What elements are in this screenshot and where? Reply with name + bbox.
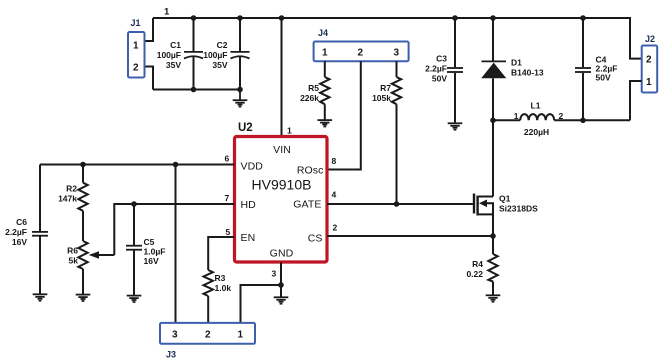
junction dot node D1/L1/Q1 drain: [490, 118, 496, 124]
svg-text:220µH: 220µH: [524, 127, 549, 137]
svg-text:2: 2: [559, 111, 564, 121]
junction dot C4 bottom: [580, 118, 586, 124]
wire CS net: [327, 235, 493, 237]
wire EN net to R3: [208, 237, 234, 270]
capacitor C2: [203, 18, 249, 90]
svg-text:R7: R7: [380, 83, 391, 93]
ground under C5: [127, 296, 142, 302]
wire bottom input rail: [153, 89, 240, 91]
ground under R4: [486, 295, 501, 301]
svg-text:R2: R2: [66, 184, 77, 194]
svg-text:50V: 50V: [596, 73, 611, 83]
svg-text:C6: C6: [16, 217, 27, 227]
svg-text:5k: 5k: [69, 256, 79, 266]
wire ROsc to J4 pin2: [327, 61, 361, 169]
wire GATE net: [327, 203, 473, 205]
svg-text:1: 1: [164, 7, 170, 18]
svg-text:B140-13: B140-13: [511, 68, 544, 78]
resistor R4: [466, 236, 497, 295]
capacitor C1: [157, 18, 203, 90]
svg-text:35V: 35V: [166, 60, 181, 70]
wire VDD net left rail: [40, 164, 235, 166]
resistor R5: [300, 61, 329, 120]
svg-text:J4: J4: [318, 28, 328, 38]
svg-text:50V: 50V: [432, 74, 447, 84]
svg-text:C1: C1: [170, 40, 181, 50]
resistor R2: [58, 165, 88, 242]
svg-text:16V: 16V: [144, 256, 159, 266]
capacitor C5: [126, 204, 165, 296]
resistor R3: [204, 270, 232, 323]
resistor R7: [372, 61, 401, 204]
svg-text:VIN: VIN: [273, 144, 291, 156]
svg-text:3: 3: [272, 269, 277, 279]
svg-text:2: 2: [205, 330, 211, 341]
svg-text:100µF: 100µF: [203, 50, 227, 60]
svg-text:2.2µF: 2.2µF: [425, 64, 447, 74]
svg-text:6: 6: [225, 154, 230, 164]
svg-text:16V: 16V: [12, 237, 27, 247]
svg-text:J3: J3: [166, 350, 176, 360]
wire J3 pin1 to GND node: [241, 285, 282, 323]
svg-text:R4: R4: [472, 259, 483, 269]
inductor L1: [493, 101, 630, 138]
connector J3: [160, 323, 255, 360]
capacitor C6: [5, 165, 48, 295]
svg-text:C5: C5: [144, 237, 155, 247]
svg-text:R6: R6: [67, 246, 78, 256]
svg-text:R5: R5: [308, 83, 319, 93]
junction C1 top: [191, 15, 197, 21]
junction dot VDD/R2: [80, 162, 86, 168]
svg-text:1: 1: [133, 41, 139, 52]
junction dot GATE/R7: [394, 201, 400, 207]
svg-text:35V: 35V: [212, 60, 227, 70]
wire J1 pin1 to top rail: [145, 18, 154, 41]
transistor Q1 MOSFET: [474, 194, 538, 237]
svg-text:VDD: VDD: [241, 161, 264, 173]
svg-text:147k: 147k: [58, 194, 77, 204]
wire HD net: [114, 204, 234, 255]
wire J1 pin2 to bottom rail: [145, 67, 154, 90]
junction C4 top: [580, 15, 586, 21]
wire top rail from J1 to J2: [153, 18, 642, 59]
svg-text:1: 1: [238, 330, 244, 341]
svg-text:Q1: Q1: [499, 194, 511, 204]
potentiometer R6: [67, 241, 114, 295]
svg-text:C2: C2: [217, 40, 228, 50]
junction C1 bottom: [191, 87, 197, 93]
junction D1 top: [490, 15, 496, 21]
svg-text:2.2µF: 2.2µF: [5, 227, 27, 237]
svg-text:100µF: 100µF: [157, 50, 181, 60]
svg-text:ROsc: ROsc: [297, 165, 324, 177]
svg-text:HV9910B: HV9910B: [252, 177, 312, 193]
junction C2 bottom: [237, 87, 243, 93]
junction dot GND node: [278, 282, 284, 288]
svg-text:4: 4: [332, 190, 337, 200]
connector J1: [128, 18, 145, 78]
svg-text:GND: GND: [270, 248, 294, 260]
svg-text:1.0k: 1.0k: [215, 283, 232, 293]
svg-text:Si2318DS: Si2318DS: [499, 204, 538, 214]
svg-text:1: 1: [514, 111, 519, 121]
svg-text:2: 2: [646, 55, 652, 66]
diode D1: [481, 18, 544, 197]
ground under C2: [233, 90, 248, 107]
junction C2 top: [237, 15, 243, 21]
svg-text:2: 2: [333, 223, 338, 233]
ground under R5: [318, 120, 333, 126]
svg-text:2: 2: [133, 63, 139, 74]
capacitor C4: [575, 18, 617, 120]
svg-text:GATE: GATE: [293, 199, 321, 211]
svg-text:L1: L1: [531, 101, 541, 111]
svg-text:8: 8: [332, 156, 337, 166]
svg-text:1: 1: [646, 77, 652, 88]
junction C3 top: [452, 15, 458, 21]
wire VDD to J3 pin3: [175, 165, 177, 323]
svg-text:CS: CS: [308, 233, 323, 245]
junction dot VDD/J3 pin3 wire: [173, 162, 179, 168]
svg-text:105k: 105k: [372, 93, 391, 103]
ground under U2 GND: [274, 297, 289, 303]
svg-text:J2: J2: [645, 34, 655, 44]
svg-text:C3: C3: [436, 54, 447, 64]
junction dot CS/R4/Q1 source: [490, 233, 496, 239]
wire VIN from top rail to U2: [281, 18, 283, 137]
junction dot HD/C5: [131, 201, 137, 207]
svg-text:HD: HD: [241, 199, 257, 211]
svg-text:D1: D1: [511, 58, 522, 68]
svg-text:3: 3: [172, 330, 178, 341]
ground under C6: [33, 294, 48, 300]
svg-text:226k: 226k: [300, 93, 319, 103]
svg-text:0.22: 0.22: [466, 269, 483, 279]
svg-text:3: 3: [394, 48, 400, 59]
svg-text:J1: J1: [131, 18, 141, 28]
svg-text:1: 1: [287, 126, 292, 136]
svg-text:5: 5: [226, 227, 231, 237]
junction VIN tap: [279, 15, 285, 21]
connector J4: [314, 28, 409, 61]
svg-text:EN: EN: [241, 232, 256, 244]
capacitor C3: [425, 18, 463, 122]
svg-text:7: 7: [225, 193, 230, 203]
ground under R6: [76, 295, 91, 301]
svg-text:U2: U2: [238, 122, 253, 134]
svg-text:2: 2: [358, 48, 364, 59]
connector J2: [642, 34, 658, 93]
IC U2 HV9910B: [235, 122, 328, 262]
ground under C3: [448, 123, 463, 129]
svg-text:1: 1: [322, 48, 328, 59]
wire U2 GND pin: [280, 262, 282, 297]
svg-text:1.0µF: 1.0µF: [144, 247, 166, 257]
svg-text:R3: R3: [215, 273, 226, 283]
wire J2 pin1 to L1 line: [630, 81, 642, 120]
